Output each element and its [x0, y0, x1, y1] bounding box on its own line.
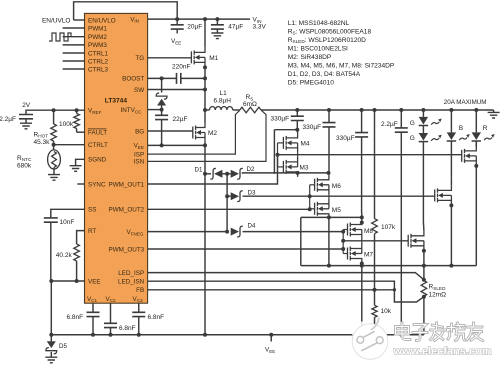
- wire M7 drain to LED- bus and down to VEE rail: [360, 262, 364, 266]
- svg-text:100k: 100k: [59, 121, 74, 128]
- LED B (blue): [449, 108, 453, 112]
- svg-text:20µF: 20µF: [187, 23, 202, 30]
- junction RSLED bottom: [422, 295, 426, 299]
- resistor RHOT 45.3k: [34, 110, 57, 146]
- wire M8/M7 gate tie: [343, 229, 347, 231]
- wire M2/VEE node down to D1 and bottom rail: [204, 145, 206, 334]
- resistor RS 6mOhm current sense: [240, 94, 261, 113]
- wire RT to 40.2k: [77, 231, 85, 244]
- diode D5 (VEE clamp): [46, 335, 68, 357]
- svg-text:G: G: [410, 135, 415, 142]
- svg-text:D1, D2, D3, D4: BAT54A: D1, D2, D3, D4: BAT54A: [288, 71, 361, 78]
- wire R cathode down: [475, 141, 477, 147]
- wire M2 drain to SW node: [204, 90, 206, 123]
- wire SS to 10nF: [51, 209, 85, 218]
- svg-text:D1: D1: [195, 166, 203, 173]
- node VIN 3.3V label: [253, 17, 267, 31]
- transistor G-channel low-side FET: [408, 231, 424, 251]
- wire CTRLT line: [54, 144, 85, 146]
- wire SYNC stub: [77, 183, 84, 185]
- wire BG to M2 gate: [148, 130, 193, 132]
- junction SW node: [203, 88, 207, 92]
- junction RSLED top: [422, 278, 426, 282]
- wire M1 source down: [204, 67, 206, 89]
- svg-text:M6: M6: [332, 183, 341, 190]
- junction G-FET source: [422, 249, 426, 253]
- junction INTVCC/22uF: [160, 108, 164, 112]
- svg-text:47µF: 47µF: [228, 23, 243, 30]
- wire anode chain vertical: [226, 174, 228, 232]
- wire B cathode down: [450, 141, 452, 177]
- ground at rail right end: [488, 110, 500, 118]
- svg-text:www.elecfans.com: www.elecfans.com: [393, 346, 492, 358]
- wire gate line to B-channel FET: [310, 195, 435, 197]
- wire SGND to ground: [76, 159, 85, 165]
- junction VEE/M2: [203, 143, 207, 147]
- junction M8 drain / 330uF#3 line: [360, 215, 364, 219]
- wire SW line: [148, 89, 205, 91]
- svg-text:6.8nF: 6.8nF: [148, 314, 165, 321]
- svg-text:6.8nF: 6.8nF: [67, 314, 84, 321]
- wire M5 drain row to M8 drain: [301, 217, 329, 218]
- wire BOOST line: [148, 77, 177, 79]
- resistor 107k (FB top divider): [373, 108, 377, 112]
- capacitor 22uF (INTVCC): [155, 110, 187, 146]
- watermark CJK brand glyphs: [396, 323, 483, 341]
- svg-text:LED_ISP: LED_ISP: [118, 270, 144, 277]
- wire M8/M7 source tie: [361, 240, 363, 244]
- wire 10nF bottom to VEE line: [50, 222, 53, 281]
- svg-text:M2: SiR438DP: M2: SiR438DP: [288, 54, 332, 61]
- svg-text:D5: D5: [59, 343, 67, 350]
- svg-text:TG: TG: [135, 55, 144, 62]
- svg-text:330µF: 330µF: [336, 135, 355, 142]
- wire M4/M3 source tie: [297, 153, 299, 157]
- IC right pin labels: [87, 16, 145, 303]
- wire ISP sense line: [148, 110, 240, 154]
- transistor M6: [315, 175, 342, 195]
- junction R-FET source: [474, 164, 478, 168]
- resistor 100k (FAULT pullup): [59, 110, 79, 132]
- wire M6/M5 gate tie: [310, 184, 315, 186]
- svg-text:10nF: 10nF: [60, 219, 75, 226]
- svg-text:45.3k: 45.3k: [34, 139, 51, 146]
- transistor B-channel low-side FET: [435, 185, 452, 205]
- IC left pin labels: [88, 17, 116, 285]
- svg-text:BOOST: BOOST: [122, 76, 144, 83]
- wire LED_ISN line to RSLED bottom: [148, 281, 424, 302]
- wire LED- bus: [301, 265, 477, 267]
- junction 220nF/M1 source: [203, 76, 207, 80]
- op-amp/IC U1 LT3744 controller body: [85, 13, 148, 303]
- capacitor 2.2uF (VREF): [0, 115, 33, 124]
- wire PWM_OUT3 to M8/M7 gates: [148, 248, 344, 250]
- LED G2 (green): [410, 126, 442, 142]
- svg-text:M2: M2: [208, 130, 217, 137]
- resistor 10k (FB bottom divider): [372, 290, 392, 335]
- svg-text:R: R: [483, 125, 488, 132]
- ground under RNTC: [48, 175, 60, 181]
- junction VEE/40.2k: [75, 279, 79, 283]
- wire VFNEG line through D4: [148, 231, 228, 233]
- bootstrap schottky diode (INTVCC to BOOST): [156, 78, 167, 109]
- svg-text:220nF: 220nF: [172, 63, 190, 70]
- svg-text:EN/UVLO: EN/UVLO: [42, 18, 71, 25]
- svg-text:CTRLT: CTRLT: [88, 142, 108, 149]
- svg-text:ISP: ISP: [134, 151, 144, 158]
- wire RSLED bottom to bottom rail: [423, 297, 425, 335]
- wire LED+ output rail: [261, 109, 494, 111]
- diode D2: [231, 166, 255, 179]
- wire M6/M5 source tie and down to bus: [328, 195, 330, 199]
- junction VREF/RHOT: [52, 108, 56, 112]
- svg-text:2.2µF: 2.2µF: [381, 121, 398, 128]
- svg-text:6.8nF: 6.8nF: [119, 325, 136, 332]
- transistor M2: [193, 123, 218, 143]
- svg-text:VEE: VEE: [88, 278, 101, 285]
- svg-text:6.8µH: 6.8µH: [214, 98, 232, 105]
- transistor M1: [191, 47, 218, 67]
- transistor M7: [348, 244, 374, 264]
- wire ISN sense line: [148, 110, 266, 161]
- junction VIN/47uF: [215, 17, 219, 21]
- svg-text:2.2µF: 2.2µF: [0, 116, 16, 123]
- wire down to LED- bus left end: [300, 217, 302, 265]
- junction CTRLT/RNTC: [52, 143, 56, 147]
- svg-text:RT: RT: [88, 228, 96, 235]
- watermark logo circle: [352, 318, 388, 360]
- svg-text:PWM2: PWM2: [88, 34, 107, 41]
- svg-text:CTRL2: CTRL2: [88, 58, 108, 65]
- svg-text:3.3V: 3.3V: [253, 24, 267, 31]
- capacitor 220nF (boost): [172, 63, 205, 84]
- wire M4/M3 gate tie + R gate line: [278, 142, 284, 144]
- svg-text:680k: 680k: [17, 162, 32, 169]
- thermistor RNTC 680k: [17, 145, 60, 175]
- wire G string cathode down to G-FET: [422, 142, 424, 222]
- svg-text:LED_ISN: LED_ISN: [118, 279, 145, 286]
- capacitor 6.8nF VC3: [132, 303, 164, 335]
- wire EN/UVLO to top rail to VIN: [74, 19, 85, 21]
- capacitor 47uF: [211, 19, 243, 33]
- svg-text:40.2k: 40.2k: [56, 252, 73, 259]
- capacitor 330uF #1: [295, 108, 299, 112]
- transistor M5: [315, 199, 342, 219]
- svg-text:10k: 10k: [381, 308, 392, 315]
- svg-text:PWM_OUT1: PWM_OUT1: [109, 181, 145, 188]
- svg-text:2V: 2V: [22, 102, 31, 109]
- LED R (red): [474, 108, 478, 112]
- junction VIN/M1: [203, 17, 207, 21]
- svg-text:FB: FB: [136, 287, 144, 294]
- ground under D5: [45, 357, 57, 363]
- capacitor 6.8nF VC2: [104, 303, 136, 335]
- wire gate line to R-channel FET: [278, 154, 462, 156]
- svg-text:PWM_OUT3: PWM_OUT3: [109, 246, 145, 253]
- wire INTVCC line: [148, 109, 162, 111]
- wire FB line: [148, 289, 395, 291]
- junction FB divider tap: [373, 288, 377, 292]
- svg-text:L1: L1: [220, 90, 228, 97]
- svg-text:M3, M4, M5, M6, M7, M8: Si7234: M3, M4, M5, M6, M7, M8: Si7234DP: [288, 62, 395, 69]
- inductor L1 6.8uH: [205, 90, 240, 110]
- ground at SGND: [70, 166, 82, 172]
- wire 330uF#1 bottom to D2 row: [274, 129, 297, 131]
- svg-text:22µF: 22µF: [173, 116, 188, 123]
- wire FAULT line: [77, 131, 85, 133]
- svg-text:107k: 107k: [381, 224, 396, 231]
- capacitor 330uF #3: [360, 108, 364, 112]
- junction VEE/22uF: [160, 143, 164, 147]
- svg-text:D2: D2: [247, 166, 255, 173]
- LED G1 (green): [421, 108, 425, 112]
- wire D1/D2 row from SW vertical: [203, 172, 207, 176]
- junction D1/D2 anodes: [225, 172, 229, 176]
- junction SW/L1: [203, 108, 207, 112]
- capacitor 20uF: [171, 19, 203, 33]
- svg-text:BG: BG: [135, 128, 144, 135]
- svg-text:D5: PMEG4010: D5: PMEG4010: [288, 79, 335, 86]
- svg-text:CTRL1: CTRL1: [88, 50, 108, 57]
- transistor R-channel low-side FET: [462, 146, 477, 166]
- wire 40.2k to VEE line: [76, 261, 78, 281]
- capacitor 2.2uF output: [399, 108, 403, 112]
- wire M2 source to VEE: [204, 143, 206, 146]
- junction B-FET source: [449, 203, 453, 207]
- svg-text:D4: D4: [248, 223, 256, 230]
- component value list: [288, 20, 395, 87]
- wire M4 drain to 330uF#1 bottom: [295, 128, 299, 132]
- svg-text:6mΩ: 6mΩ: [243, 101, 257, 108]
- wire PWM_OUT1 to M4/M3 gates: [148, 155, 278, 184]
- svg-text:L1: MSS1048-682NL: L1: MSS1048-682NL: [288, 20, 350, 27]
- svg-text:PWM3: PWM3: [88, 42, 107, 49]
- svg-text:M1: BSC010NE2LSI: M1: BSC010NE2LSI: [288, 45, 348, 52]
- ground under 47uF: [211, 33, 223, 39]
- wire PWM_OUT2 to M6/M5 gates: [148, 208, 310, 210]
- wire VEE pin line (left): [51, 280, 84, 282]
- wire VEE bottom rail: [51, 334, 424, 336]
- wire VIN rail: [148, 18, 250, 20]
- svg-text:20A MAXIMUM: 20A MAXIMUM: [444, 99, 487, 106]
- wire VREF line: [26, 110, 85, 114]
- junction VEE/10nF: [49, 279, 53, 283]
- junction VIN/20uF: [175, 17, 179, 21]
- svg-text:M1: M1: [209, 55, 218, 62]
- svg-text:B: B: [459, 125, 463, 132]
- svg-text:M7: M7: [364, 251, 373, 258]
- svg-text:RS: WSPL08056L000FEA18: RS: WSPL08056L000FEA18: [288, 28, 372, 35]
- ground under 2.2uF: [20, 123, 32, 129]
- wire M6 drain to D2 row: [328, 173, 330, 175]
- wire VEE pin line (right): [148, 144, 205, 146]
- svg-text:SW: SW: [134, 87, 144, 94]
- svg-text:M5: M5: [332, 207, 341, 214]
- svg-text:SGND: SGND: [88, 157, 107, 164]
- resistor 40.2k (RT): [56, 244, 80, 261]
- svg-text:PWM_OUT2: PWM_OUT2: [109, 207, 145, 214]
- svg-text:12mΩ: 12mΩ: [429, 291, 447, 298]
- svg-text:ISN: ISN: [134, 159, 145, 166]
- diode D1: [195, 166, 223, 179]
- svg-text:330µF: 330µF: [271, 115, 290, 122]
- svg-text:SYNC: SYNC: [88, 181, 106, 188]
- capacitor 10nF (SS): [44, 218, 75, 226]
- diode D4: [225, 230, 229, 234]
- junction M1 source/220nF: [203, 65, 207, 69]
- transistor M8: [348, 220, 374, 240]
- diode D3: [225, 194, 229, 198]
- svg-text:EN/UVLO: EN/UVLO: [88, 17, 116, 24]
- svg-text:CTRL3: CTRL3: [88, 66, 108, 73]
- capacitor 6.8nF VC1: [67, 303, 100, 335]
- wire gate line to G-channel FET: [343, 240, 408, 242]
- PWM square wave symbol: [49, 33, 71, 41]
- node VEE tag on bottom rail: [265, 335, 275, 354]
- svg-text:FAULT: FAULT: [88, 130, 107, 137]
- wire M1 drain to VIN: [204, 19, 206, 47]
- svg-text:M4: M4: [301, 140, 310, 147]
- svg-text:330µF: 330µF: [303, 124, 322, 131]
- wire D3 cathode to M6/M5 gate node: [243, 195, 310, 197]
- svg-text:SS: SS: [88, 207, 96, 214]
- capacitor 330uF #2: [327, 108, 331, 112]
- junction BOOST/bootstrap diode: [160, 76, 164, 80]
- resistor RSLED 12mOhm: [421, 281, 446, 299]
- svg-text:PWM1: PWM1: [88, 25, 107, 32]
- svg-text:LT3744: LT3744: [105, 98, 128, 105]
- svg-text:M3: M3: [300, 164, 309, 171]
- transistor M4: [283, 133, 310, 153]
- svg-text:G: G: [410, 120, 415, 127]
- pin stubs PWM1-3 CTRL1-3: [63, 28, 85, 69]
- wire D2 cathode to M3/M6 nodes: [243, 172, 329, 175]
- wire LED_ISP line to RSLED top: [148, 273, 424, 280]
- wire TG to M1 gate: [148, 57, 192, 59]
- junction VREF/100k: [75, 108, 79, 112]
- wire VEE left down to bottom rail: [50, 281, 52, 335]
- transistor M3: [283, 157, 309, 177]
